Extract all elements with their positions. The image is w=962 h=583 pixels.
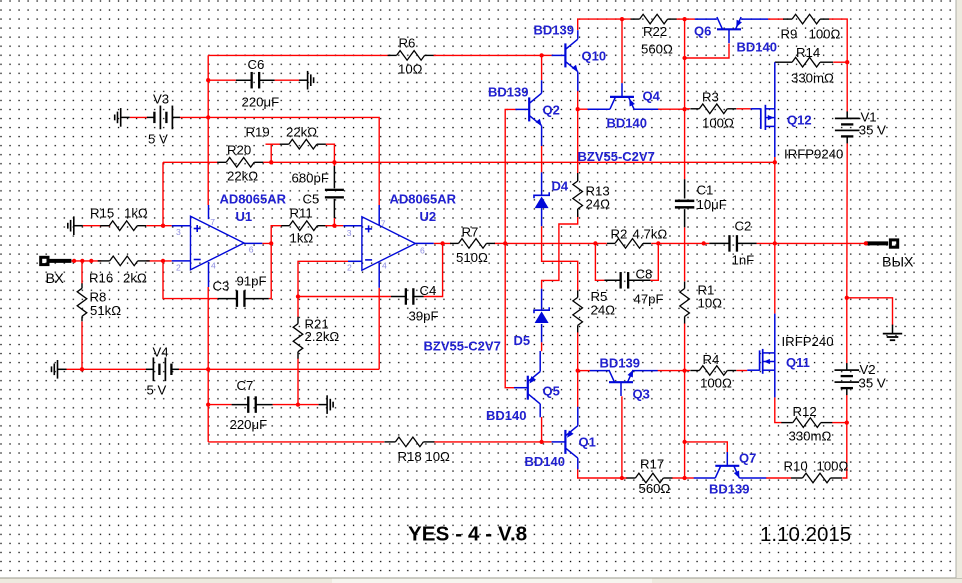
svg-text:1nF: 1nF: [732, 253, 755, 268]
transistor Q1: [564, 430, 566, 454]
wire R4 left lead: [685, 370, 690, 372]
svg-text:V3: V3: [153, 92, 169, 107]
wire rail R20 right to Q12 drain: [263, 161, 775, 163]
wire U2 out to R7: [434, 242, 451, 244]
wire C7 row left: [208, 404, 231, 406]
wire +5V trunk top (V3 to U1 pin7): [207, 55, 209, 205]
svg-text:39pF: 39pF: [409, 309, 439, 324]
wire C5 bottom to R11 node: [333, 218, 335, 226]
resistor R13: [577, 173, 579, 181]
svg-text:10μF: 10μF: [697, 197, 727, 212]
capacitor C8 with loop wires: [595, 243, 604, 280]
resistor R1: [684, 282, 686, 289]
wire R8 column bottom: [81, 322, 83, 370]
svg-text:510Ω: 510Ω: [456, 250, 488, 265]
wire Q7 collector lead red: [685, 477, 694, 479]
wire rail to output row: [774, 162, 776, 243]
wire Q3 emitter lead: [658, 370, 685, 372]
transistor Q4: [610, 96, 634, 98]
svg-text:7: 7: [210, 217, 215, 227]
resistor R18: [384, 441, 395, 443]
svg-text:7: 7: [381, 219, 386, 229]
svg-text:35 V: 35 V: [859, 123, 886, 138]
wire C6 to ground: [275, 79, 300, 81]
capacitor C6: [236, 79, 253, 81]
wire Q12 drain to rail: [774, 157, 776, 162]
svg-text:BZV55-C2V7: BZV55-C2V7: [578, 149, 655, 164]
svg-text:22kΩ: 22kΩ: [227, 169, 258, 184]
wire BX to R16: [71, 260, 101, 262]
wire U1 output to R11: [262, 226, 282, 244]
wire R10 right corner: [842, 423, 847, 478]
wire Q11 source down: [775, 397, 782, 422]
svg-text:BD139: BD139: [534, 23, 574, 38]
resistor R15: [100, 225, 109, 227]
wire R16 to U1 pin2: [146, 260, 171, 262]
svg-text:35 V: 35 V: [859, 376, 886, 391]
resistor R20: [217, 161, 226, 163]
svg-text:IRFP240: IRFP240: [782, 334, 834, 349]
wire R3 left lead: [685, 108, 690, 110]
svg-text:R17: R17: [640, 457, 664, 472]
svg-text:3: 3: [176, 227, 181, 237]
wire U2 pin4 column: [378, 288, 380, 370]
svg-text:Q10: Q10: [582, 49, 607, 64]
svg-text:R10: R10: [784, 459, 808, 474]
wire C3 right to U1 output: [269, 243, 271, 298]
svg-text:R7: R7: [462, 225, 479, 240]
capacitor C4: [391, 296, 407, 298]
wire output to Q11 drain: [774, 243, 776, 313]
wire R5 bottom: [577, 332, 579, 371]
wire C2 right to output column: [757, 242, 775, 244]
svg-text:C3: C3: [213, 279, 230, 294]
svg-text:R15: R15: [90, 206, 114, 221]
wire V2 bottom: [846, 395, 848, 423]
svg-text:R19: R19: [246, 125, 270, 140]
svg-text:U2: U2: [420, 209, 437, 224]
wire Q1 base: [542, 441, 552, 443]
svg-text:2: 2: [347, 263, 352, 273]
resistor R14: [779, 61, 792, 63]
wire Q2 emitter to D4: [541, 146, 543, 173]
svg-text:24Ω: 24Ω: [591, 303, 616, 318]
svg-text:100Ω: 100Ω: [809, 27, 841, 42]
svg-text:2: 2: [176, 262, 181, 272]
svg-text:100Ω: 100Ω: [702, 116, 734, 131]
ground at C7: [326, 395, 328, 414]
wire R19 left tap: [270, 144, 272, 162]
mosfet Q12 IRFP9240: [751, 108, 761, 110]
wire R3 right to Q12 gate: [737, 108, 751, 110]
svg-text:C7: C7: [237, 378, 254, 393]
resistor R7: [450, 242, 459, 244]
capacitor C7: [232, 404, 249, 406]
svg-text:680pF: 680pF: [292, 171, 329, 186]
wire C4 row right: [424, 243, 443, 296]
wire D4 bottom step to R5: [542, 226, 578, 290]
svg-text:4: 4: [382, 261, 387, 271]
wire ground branch: [847, 298, 893, 326]
wire feedback rail left vertical (to U1 pin3): [162, 162, 164, 225]
wire R13 column top: [577, 109, 579, 173]
resistor R16: [98, 260, 110, 262]
svg-text:Q4: Q4: [643, 89, 661, 104]
wire -5V trunk (U1 pin4 down): [207, 287, 209, 442]
wire Q10 emitter down: [577, 91, 579, 109]
wire U2 pin2 loop: [298, 261, 348, 296]
resistor R9: [783, 18, 792, 20]
resistor R8: [81, 283, 83, 288]
wire R11 right to U2 pin3: [325, 225, 343, 227]
svg-text:5 V: 5 V: [147, 383, 167, 398]
wire V3 row: [130, 116, 148, 118]
wire R19 row right corner: [326, 144, 335, 162]
wire top rail R22 right: [676, 18, 684, 20]
svg-text:R12: R12: [793, 404, 817, 419]
zener diode D4: [541, 172, 543, 195]
svg-text:BD140: BD140: [525, 454, 565, 469]
mosfet Q11 IRFP240: [747, 369, 759, 371]
svg-text:2kΩ: 2kΩ: [123, 271, 147, 286]
svg-text:22kΩ: 22kΩ: [286, 125, 317, 140]
svg-text:C2: C2: [735, 219, 752, 234]
svg-text:U1: U1: [236, 209, 253, 224]
port BX: [41, 257, 48, 264]
svg-text:Q12: Q12: [787, 113, 812, 128]
wire R12 right: [832, 422, 847, 424]
svg-text:AD8065AR: AD8065AR: [390, 192, 457, 207]
zener diode D5: [541, 289, 543, 311]
wire R18 to Q1 base node: [434, 441, 542, 443]
wire V4 ground lead: [67, 368, 147, 370]
resistor R22: [631, 18, 640, 20]
svg-text:1kΩ: 1kΩ: [290, 231, 314, 246]
wire main row R2 right: [651, 242, 709, 244]
svg-text:100Ω: 100Ω: [817, 459, 849, 474]
transistor Q3: [609, 381, 633, 383]
wire D5 to Q5 emitter: [541, 342, 543, 351]
wire Q7 emitter to R10: [766, 477, 791, 479]
svg-text:560Ω: 560Ω: [641, 42, 673, 57]
svg-text:47pF: 47pF: [634, 292, 664, 307]
svg-text:10Ω: 10Ω: [398, 62, 423, 77]
svg-text:C5: C5: [303, 192, 320, 207]
transistor Q7: [715, 465, 739, 467]
wire C4 row left: [298, 296, 391, 298]
wire Q7 base loop: [685, 442, 728, 453]
svg-text:100Ω: 100Ω: [700, 376, 732, 391]
svg-text:R11: R11: [290, 206, 313, 221]
wire R1 bottom: [684, 323, 686, 370]
wire C6 row: [208, 79, 236, 81]
right scrollbar strip: [955, 0, 957, 578]
resistor R4: [690, 370, 699, 372]
svg-text:C8: C8: [636, 267, 653, 282]
svg-text:4.7kΩ: 4.7kΩ: [633, 227, 668, 242]
svg-text:560Ω: 560Ω: [639, 481, 671, 496]
wire R1/R4 column down: [684, 371, 686, 478]
svg-text:R14: R14: [796, 45, 820, 60]
wire Q4 right lead: [658, 108, 685, 110]
svg-text:BD139: BD139: [709, 482, 749, 497]
svg-text:ВЫХ: ВЫХ: [882, 255, 914, 271]
transistor Q10: [564, 43, 566, 67]
svg-text:51kΩ: 51kΩ: [90, 303, 121, 318]
svg-text:IRFP9240: IRFP9240: [784, 147, 843, 162]
svg-text:R20: R20: [227, 143, 251, 158]
svg-text:R22: R22: [643, 24, 667, 39]
svg-text:BD139: BD139: [488, 85, 528, 100]
svg-text:YES - 4 - V.8: YES - 4 - V.8: [408, 523, 527, 546]
ground at V1/V2 midpoint: [892, 325, 894, 334]
svg-text:6: 6: [249, 245, 254, 255]
capacitor C5: [333, 166, 335, 188]
svg-text:Q1: Q1: [579, 435, 596, 450]
battery V4: [153, 357, 155, 381]
svg-text:5 V: 5 V: [148, 132, 168, 147]
svg-text:ВХ: ВХ: [46, 271, 65, 287]
wire R4 right to Q11 gate: [737, 370, 748, 372]
svg-text:C4: C4: [420, 283, 437, 298]
svg-text:D4: D4: [552, 179, 569, 194]
wire Q3 base column: [621, 396, 623, 478]
svg-text:BD140: BD140: [607, 116, 647, 131]
wire R21 bottom lead: [297, 358, 299, 404]
wire rail R20 left: [163, 161, 218, 163]
bottom scrollbar strip: [0, 574, 962, 583]
svg-text:V4: V4: [153, 345, 169, 360]
svg-text:Q11: Q11: [786, 355, 810, 370]
wire C5 top lead: [333, 162, 335, 166]
svg-text:3: 3: [347, 228, 352, 238]
wire C3 left loop: [163, 261, 218, 299]
port BbIX: [890, 240, 897, 247]
resistor R2: [607, 242, 615, 244]
wire Q3 collector lead: [578, 370, 590, 372]
svg-text:2.2kΩ: 2.2kΩ: [305, 329, 340, 344]
wire Q6 base loop: [685, 44, 729, 59]
wire R19 row left: [266, 143, 281, 145]
svg-text:Q3: Q3: [633, 387, 650, 402]
wire Q4 left lead: [578, 108, 588, 110]
ground at V4: [57, 360, 59, 379]
svg-text:R4: R4: [703, 352, 720, 367]
ground at V3: [120, 108, 122, 127]
svg-text:1.10.2015: 1.10.2015: [760, 523, 851, 546]
wire C7 row right to ground: [273, 404, 319, 406]
capacitor C2: [709, 242, 730, 244]
svg-text:R9: R9: [781, 27, 798, 42]
transistor Q6: [717, 28, 741, 30]
svg-text:R3: R3: [702, 90, 719, 105]
svg-text:BZV55-C2V7: BZV55-C2V7: [424, 339, 501, 354]
svg-text:10Ω: 10Ω: [698, 296, 723, 311]
wire Q2 collector up: [541, 55, 543, 80]
svg-text:R6: R6: [399, 36, 416, 51]
resistor R3: [690, 108, 699, 110]
junction dots: [206, 78, 210, 82]
svg-text:C6: C6: [248, 57, 265, 72]
capacitor C1: [684, 179, 686, 198]
wire C1 bottom to R1: [684, 227, 686, 281]
wire R6 right: [433, 54, 542, 56]
wire Q10 base: [542, 54, 552, 56]
wire output row to port: [775, 242, 866, 244]
wire Q6 collector lead red: [685, 18, 695, 20]
wire VAS trunk (Q2 base to Q5 base): [505, 109, 516, 387]
svg-text:R2: R2: [611, 227, 628, 242]
wire main row middle: [505, 242, 607, 244]
wire R22/Q4/R3 column: [684, 19, 686, 179]
svg-text:Q7: Q7: [739, 451, 756, 466]
wire Q6 emitter to R9: [768, 18, 784, 20]
resistor R6: [388, 54, 397, 56]
wire R8 column top: [81, 261, 83, 284]
svg-text:330mΩ: 330mΩ: [789, 429, 832, 444]
wire Q1 collector corner: [578, 469, 627, 478]
svg-text:BD140: BD140: [737, 40, 777, 55]
battery V1: [835, 118, 860, 120]
svg-text:R16: R16: [89, 271, 113, 286]
svg-text:330mΩ: 330mΩ: [791, 71, 834, 86]
capacitor C3: [218, 298, 238, 300]
svg-text:BD140: BD140: [486, 408, 526, 423]
svg-text:Q2: Q2: [543, 103, 560, 118]
svg-text:AD8065AR: AD8065AR: [220, 192, 287, 207]
svg-text:220μF: 220μF: [230, 417, 268, 432]
svg-text:6: 6: [420, 245, 425, 255]
ground at R15: [73, 216, 75, 235]
wire R21 top lead: [297, 297, 299, 318]
wire R15 ground lead: [83, 225, 110, 227]
wire R9 right corner: [829, 19, 847, 112]
wire V1 bottom to gnd node: [846, 143, 848, 298]
wire R6 row left segment: [208, 54, 390, 56]
battery V2: [835, 369, 860, 371]
svg-text:4: 4: [211, 260, 216, 270]
transistor Q2: [528, 97, 530, 121]
resistor R11: [281, 225, 289, 227]
resistor R10: [791, 477, 803, 479]
transistor Q5: [527, 376, 529, 400]
wire -5V row (V4 to U2 pin4): [179, 368, 380, 370]
battery V3: [153, 112, 155, 123]
wire R13 bottom step to D5: [542, 214, 578, 289]
wire Q10 collector corner: [578, 19, 631, 30]
svg-text:C1: C1: [697, 183, 714, 198]
resistor R19: [280, 143, 289, 145]
svg-text:91pF: 91pF: [237, 274, 267, 289]
svg-text:BD139: BD139: [600, 356, 640, 371]
svg-text:Q5: Q5: [543, 384, 560, 399]
wire R17 right to column: [672, 477, 685, 479]
svg-text:R18 10Ω: R18 10Ω: [398, 449, 451, 464]
wire R15 to U1 pin3: [146, 225, 171, 227]
svg-text:24Ω: 24Ω: [586, 197, 611, 212]
op-amp U1: [191, 216, 245, 269]
resistor R12: [781, 422, 793, 424]
ground at C6: [307, 71, 309, 90]
wire R7 to VAS trunk: [494, 242, 505, 244]
wire R18 row: [208, 441, 384, 443]
svg-text:Q6: Q6: [694, 24, 711, 39]
svg-text:220μF: 220μF: [242, 95, 280, 110]
wire V3 row right to U2 pin7 corner: [180, 117, 380, 205]
svg-text:1kΩ: 1kΩ: [124, 206, 148, 221]
wire Q1 emitter up: [577, 371, 579, 407]
op-amp U2: [362, 217, 416, 271]
resistor R21: [297, 317, 299, 324]
resistor R17: [626, 477, 635, 479]
wire gnd node to V2: [846, 298, 848, 364]
wire Q5 collector down: [541, 417, 543, 442]
svg-text:D5: D5: [514, 333, 531, 348]
resistor R5: [577, 290, 579, 297]
